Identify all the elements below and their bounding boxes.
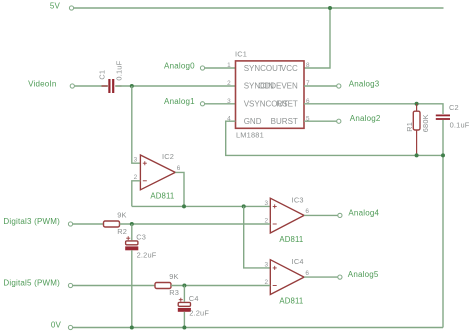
svg-text:ODDEVEN: ODDEVEN — [258, 82, 298, 91]
wire junction down to C4 — [183, 286, 185, 302]
pin circle Analog2 — [337, 119, 341, 123]
svg-text:Digital3 (PWM): Digital3 (PWM) — [3, 217, 60, 226]
capacitor C3 polarized — [125, 236, 138, 250]
svg-text:RSET: RSET — [276, 100, 297, 109]
op-amp IC3 — [270, 198, 304, 233]
svg-text:2.2uF: 2.2uF — [137, 250, 157, 259]
wire C1 to IC1 SYNCIN — [115, 85, 235, 87]
svg-text:6: 6 — [177, 165, 181, 172]
svg-text:Analog0: Analog0 — [164, 62, 195, 71]
IC1 LM1881 body — [236, 61, 305, 128]
wire IC2 feedback — [132, 181, 141, 207]
junction on 5V rail — [328, 6, 332, 10]
wire IC1 GND to ground line — [226, 121, 443, 327]
wire C2 bottom to GND line — [442, 120, 444, 155]
junction R2/C3 — [130, 222, 134, 226]
svg-text:9K: 9K — [169, 272, 178, 281]
svg-text:0V: 0V — [51, 321, 62, 330]
svg-text:3: 3 — [227, 98, 231, 105]
svg-text:IC1: IC1 — [235, 49, 247, 58]
svg-text:3: 3 — [134, 157, 138, 164]
junction C4 at 0V — [182, 326, 186, 330]
svg-text:C1: C1 — [98, 70, 107, 80]
IC3 minus mark — [273, 223, 277, 225]
svg-text:Analog4: Analog4 — [348, 209, 379, 218]
svg-text:C4: C4 — [189, 294, 199, 303]
wire R2 to IC3 -in — [120, 223, 271, 225]
svg-text:0.1uF: 0.1uF — [450, 121, 470, 130]
svg-text:IC3: IC3 — [292, 195, 304, 204]
wire C3 to 0V rail — [131, 250, 133, 327]
capacitor C4 polarized — [178, 298, 191, 312]
wire 0V rail — [73, 327, 443, 329]
IC4 plus mark — [273, 266, 277, 270]
svg-text:LM1881: LM1881 — [236, 130, 264, 139]
svg-text:9K: 9K — [117, 211, 126, 220]
pin circle Analog3 — [337, 84, 341, 88]
svg-text:BURST: BURST — [271, 117, 298, 126]
svg-text:R1: R1 — [405, 122, 414, 132]
wire VideoIn node down to IC2 +in — [132, 86, 141, 163]
svg-text:SYNCOUT: SYNCOUT — [244, 64, 283, 73]
wire VideoIn to C1 — [75, 85, 108, 87]
pin circle Analog4 — [338, 213, 342, 217]
wire IC3 output to Analog4 — [304, 214, 338, 216]
IC4 minus mark — [273, 285, 277, 287]
junction IC2 output — [182, 204, 186, 208]
svg-text:5V: 5V — [50, 1, 61, 10]
junction R3/C4 — [182, 284, 186, 288]
svg-text:VCC: VCC — [281, 64, 298, 73]
IC2 minus mark — [143, 180, 147, 182]
svg-text:3: 3 — [264, 261, 268, 268]
pin circle Digital5 — [68, 283, 72, 287]
wire 5V rail — [74, 7, 444, 9]
resistor R1 — [413, 104, 420, 156]
svg-text:IC2: IC2 — [162, 152, 174, 161]
op-amp IC4 — [270, 260, 304, 295]
junction RSET at R1 — [415, 102, 419, 106]
svg-text:6: 6 — [305, 208, 309, 215]
pin circle 0V — [68, 325, 72, 329]
pin circle VideoIn — [70, 84, 74, 88]
IC2 plus mark — [143, 161, 147, 165]
wire IC1 pin7 to Analog3 — [304, 85, 337, 87]
svg-text:8: 8 — [306, 62, 310, 69]
junction R1 bottom — [415, 153, 419, 157]
svg-text:R2: R2 — [117, 227, 127, 236]
svg-text:Analog1: Analog1 — [164, 97, 195, 106]
op-amp IC2 — [140, 155, 175, 190]
wire Analog1 to IC1 pin3 — [205, 103, 236, 105]
svg-text:2: 2 — [227, 80, 231, 87]
svg-text:AD811: AD811 — [279, 235, 303, 244]
wire Digital3 to R2 — [73, 223, 104, 225]
wire Digital5 to R3 — [73, 285, 155, 287]
svg-text:AD811: AD811 — [150, 192, 174, 201]
wire IC1 pin5 to Analog2 — [304, 120, 337, 122]
wire 5V to IC1 VCC — [304, 8, 330, 68]
wire video buffer output line — [132, 205, 270, 207]
IC3 plus mark — [273, 204, 277, 208]
pin circle Analog0 — [200, 66, 204, 70]
wire Analog0 to IC1 pin1 — [205, 67, 236, 69]
pin circle 5V — [69, 6, 73, 10]
pin circle Analog5 — [338, 275, 342, 279]
svg-text:AD811: AD811 — [279, 297, 303, 306]
wire junction down to C3 — [131, 224, 133, 240]
wire IC4 output to Analog5 — [304, 276, 338, 278]
svg-text:GND: GND — [244, 117, 262, 126]
svg-text:680K: 680K — [421, 114, 430, 132]
svg-text:3: 3 — [264, 200, 268, 207]
svg-text:R3: R3 — [169, 288, 179, 297]
junction to IC4 branch — [242, 204, 246, 208]
svg-text:VideoIn: VideoIn — [28, 80, 56, 89]
pin circle Analog1 — [200, 102, 204, 106]
pin circle Digital3 — [68, 222, 72, 226]
junction C3 at 0V — [130, 326, 134, 330]
wire C4 to 0V rail — [183, 312, 185, 328]
svg-text:C3: C3 — [136, 232, 146, 241]
capacitor C1 — [102, 79, 122, 93]
svg-text:0.1uF: 0.1uF — [114, 60, 123, 80]
wire branch down to IC4 +in — [244, 206, 271, 268]
junction VideoIn node — [130, 84, 134, 88]
resistor R3 — [155, 283, 171, 289]
svg-text:IC4: IC4 — [292, 257, 304, 266]
svg-text:6: 6 — [305, 270, 309, 277]
svg-text:C2: C2 — [449, 103, 459, 112]
svg-text:Analog3: Analog3 — [349, 80, 380, 89]
wire R3 to IC4 -in — [171, 285, 270, 287]
svg-text:Digital5 (PWM): Digital5 (PWM) — [3, 279, 60, 288]
svg-text:2.2uF: 2.2uF — [189, 308, 209, 317]
svg-text:Analog2: Analog2 — [350, 114, 381, 123]
junction C2 bottom — [441, 153, 445, 157]
resistor R2 — [104, 221, 120, 227]
svg-text:Analog5: Analog5 — [348, 270, 379, 279]
svg-text:1: 1 — [227, 62, 231, 69]
wire IC2 output — [175, 172, 184, 206]
capacitor C2 — [436, 115, 450, 119]
wire IC1 RSET net — [304, 104, 443, 114]
